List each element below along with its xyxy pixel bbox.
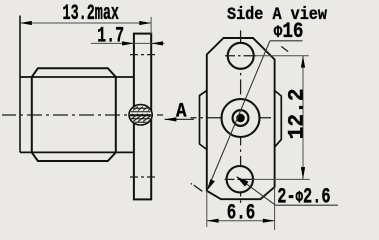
centerline horizontal (left view axis) (2, 114, 163, 116)
dimension 1.7 (91, 24, 165, 49)
svg-text:1.7: 1.7 (97, 24, 124, 49)
wire: left end face / extension line of 13.2max (19, 16, 21, 153)
wire: bottom silhouette line (20, 151, 134, 153)
svg-text:Φ16: Φ16 (274, 19, 304, 44)
flange plate outline (front view) (207, 38, 275, 199)
centre contact pin (236, 114, 245, 123)
centre hole inner ring (233, 110, 249, 126)
right side boss bulge (275, 91, 282, 148)
svg-text:12.2: 12.2 (284, 88, 309, 139)
bottom mounting hole (227, 166, 253, 192)
svg-text:2-Φ2.6: 2-Φ2.6 (277, 185, 330, 210)
dielectric boss (hatched ellipse) (128, 105, 154, 125)
svg-text:A: A (176, 100, 187, 123)
dimension Phi16 leader (207, 19, 304, 191)
dimension 12.2 (253, 56, 310, 180)
node: top mounting hole centerline (side view) (130, 54, 155, 56)
top mounting hole (228, 43, 254, 69)
dimension 2-Phi2.6 (236, 176, 338, 209)
dimension 13.2max (20, 1, 151, 34)
dimension 6.6 (207, 187, 275, 230)
node A: view arrow (165, 100, 194, 123)
flange (side view) (134, 34, 151, 200)
svg-text:13.2max: 13.2max (63, 1, 120, 26)
phantom circle dash (bottom-left) (194, 185, 203, 191)
wire: top silhouette line (cap top, hex facet, barrel top) (20, 76, 134, 78)
node: bottom mounting hole centerline (side view) (130, 176, 155, 178)
phantom circle dot (bottom-left) (191, 182, 192, 185)
node: bottom hole horizontal centerline (225, 178, 256, 180)
centre hole (outer) (222, 99, 260, 137)
hex body outline (32, 68, 116, 161)
svg-text:6.6: 6.6 (227, 201, 256, 226)
left side boss bulge (200, 91, 207, 150)
vertical centerline (right view axis) (240, 30, 242, 203)
node: top hole horizontal centerline (225, 55, 256, 57)
horizontal centerline through centre hole (191, 117, 272, 119)
phantom circle dash (top-right) (281, 46, 288, 51)
